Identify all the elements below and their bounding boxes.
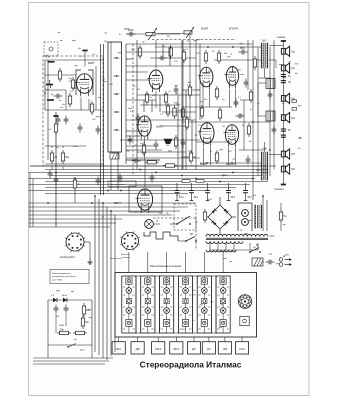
junction dots amp <box>207 46 209 48</box>
switch wafer strip S4 <box>178 276 192 333</box>
transformer Tr2 output channel I <box>261 40 268 69</box>
filter capacitor can <box>238 203 252 231</box>
capacitor C7c <box>132 159 141 164</box>
resistor R14 <box>182 49 185 63</box>
svg-text:Тр2: Тр2 <box>262 40 267 43</box>
svg-text:сетевая: сетевая <box>121 257 131 259</box>
svg-text:Д2-4: Д2-4 <box>61 294 67 297</box>
wire ballast to switch <box>178 240 186 242</box>
svg-text:Гр2: Гр2 <box>291 67 296 70</box>
svg-text:II канал: II канал <box>274 187 284 191</box>
resistor R2 <box>61 150 70 164</box>
resistor R2a <box>71 77 74 91</box>
resistor R11 <box>174 135 177 149</box>
svg-text:РА: РА <box>207 347 211 351</box>
capacitor C7 <box>128 136 133 145</box>
bus capacitor Cb2 <box>118 174 123 183</box>
switch aux box circle <box>243 319 247 323</box>
svg-text:Гр3: Гр3 <box>291 98 296 101</box>
potentiometer R6b <box>184 27 194 38</box>
bus capacitor Cb1 <box>150 174 155 183</box>
tube socket pad XS1 DP-2 <box>65 232 85 252</box>
svg-text:Гр5: Гр5 <box>291 153 296 156</box>
switch B2 <box>185 233 197 242</box>
dashed shield box input stage <box>43 56 103 166</box>
switch separator column 1 <box>136 276 141 333</box>
resistor R11c <box>181 106 184 120</box>
resistor R31 <box>249 89 252 103</box>
terminal bar bottom <box>281 184 286 186</box>
wire PSU verticals <box>262 196 264 231</box>
wire speaker chain <box>282 42 284 184</box>
resistor R11b <box>173 105 176 119</box>
wire amp horizontals <box>183 43 253 45</box>
switch separator column 5 <box>211 276 216 333</box>
capacitor C1 <box>48 170 53 179</box>
bus resistor Ra <box>182 180 190 183</box>
resistor R22 <box>189 150 192 164</box>
svg-text:I канал: I канал <box>277 35 286 39</box>
coil L1 <box>44 80 51 95</box>
antenna terminal Gn3 <box>47 99 54 101</box>
resistor R21 <box>253 56 256 70</box>
band boxes row <box>112 342 125 354</box>
capacitor C18 <box>54 305 59 314</box>
svg-text:0,1: 0,1 <box>160 114 163 116</box>
ground bar above V1 <box>82 50 87 52</box>
junction dots on buses <box>55 172 57 174</box>
svg-text:Колодка ДП-2: Колодка ДП-2 <box>60 256 75 259</box>
vacuum tube V4 6E1P <box>135 189 152 213</box>
tube socket pad XS2 <box>120 231 139 250</box>
svg-text:1м: 1м <box>54 156 57 159</box>
capacitor C17 <box>266 260 275 265</box>
vacuum tube V5 6N2P <box>198 67 213 90</box>
wire IF can outlet drops <box>110 159 112 190</box>
wire subcircuit top <box>48 299 92 301</box>
capacitor C21 <box>272 126 277 135</box>
diode D2 <box>61 294 67 302</box>
capacitor C11 <box>234 99 239 108</box>
capacitor C2a <box>64 116 69 125</box>
svg-text:6Н2П: 6Н2П <box>201 27 209 31</box>
antenna terminal Gn1 <box>45 55 55 63</box>
svg-text:30,0: 30,0 <box>194 197 199 199</box>
wire V1 pins to bus <box>80 99 82 110</box>
capacitor C5 <box>136 114 141 123</box>
ballast winding <box>144 232 178 241</box>
IF transformer can <box>108 42 122 152</box>
resistor R28 <box>73 331 87 334</box>
wire transformer taps <box>264 68 266 78</box>
capacitor C0 <box>54 176 59 185</box>
resistor R11d <box>145 161 159 164</box>
heater winding row <box>206 250 236 252</box>
vacuum tube V1 6K4P <box>75 74 93 97</box>
switch aux box <box>240 316 249 325</box>
switch wafer strip S2 <box>141 276 155 333</box>
svg-text:6К4П: 6К4П <box>88 61 94 65</box>
resistor R3 <box>73 177 80 191</box>
electrolytic capacitor bank <box>175 183 180 201</box>
wire crossover 1 <box>258 82 266 84</box>
mains voltage selector dashed box <box>174 204 196 230</box>
svg-text:Тр1: Тр1 <box>270 235 275 238</box>
capacitor C22 <box>246 156 251 165</box>
selector switch lever <box>170 216 191 225</box>
capacitor C2b <box>78 124 83 133</box>
svg-text:КВ-2: КВ-2 <box>173 347 179 351</box>
wire transformer taps down <box>209 243 211 250</box>
capacitor C10 <box>244 79 249 88</box>
resistor R23 <box>215 150 218 164</box>
switch separator column 2 <box>155 276 160 333</box>
capacitor C6a <box>158 56 167 61</box>
chain capacitor C14 <box>281 81 292 84</box>
resistor R25 <box>82 303 90 317</box>
chain capacitor C16 <box>281 135 286 137</box>
svg-text:6И1П: 6И1П <box>126 57 133 61</box>
wire V2 nets <box>155 40 157 68</box>
svg-text:Др-1: Др-1 <box>221 174 228 177</box>
svg-text:ПВ: ПВ <box>223 347 227 351</box>
bus capacitor Cb3 <box>96 177 101 186</box>
antenna terminal Gn2 <box>45 84 53 91</box>
wire left feeder column <box>55 112 57 227</box>
resistor R10 <box>166 103 169 117</box>
capacitor C8 <box>239 47 248 54</box>
dashed link to switch <box>153 217 196 219</box>
resistor R26 <box>81 315 89 329</box>
switch unit top stubs <box>128 252 130 273</box>
switch wafer strip S1 <box>122 276 136 333</box>
svg-text:устройство для белья: устройство для белья <box>51 275 76 278</box>
crossover choke L3 <box>266 111 275 121</box>
svg-text:Гр1: Гр1 <box>291 51 296 54</box>
resistor R27 <box>57 328 71 334</box>
dashed screen vertical mid <box>132 44 134 176</box>
label radio chassis box <box>108 181 136 187</box>
diode D1 <box>51 295 57 302</box>
speaker Gr1 <box>281 46 295 56</box>
svg-text:2700: 2700 <box>123 29 130 31</box>
svg-text:10,0: 10,0 <box>179 197 184 199</box>
capacitor C12 <box>181 139 186 148</box>
capacitor C2c <box>54 94 63 99</box>
wire bus: bottom return rails <box>33 357 113 359</box>
vacuum tube V3 <box>136 116 151 139</box>
capacitor C4 2700 <box>127 29 136 36</box>
resistor R20 <box>247 123 250 137</box>
switch wafer strip S5 <box>197 276 211 333</box>
resistor R16 <box>215 86 218 100</box>
vacuum tube V2 6I1P <box>147 70 163 92</box>
svg-text:тельность: тельность <box>110 258 121 260</box>
wire socket XS1 stub <box>84 241 90 243</box>
svg-text:СВ-1: СВ-1 <box>155 347 162 351</box>
svg-text:Радиоприемник: Радиоприемник <box>110 183 126 186</box>
resistor R11e <box>163 164 177 167</box>
resistor R29 <box>292 100 297 103</box>
svg-text:0,01: 0,01 <box>240 47 244 49</box>
capacitor C19 <box>64 305 69 314</box>
vacuum tube V8 6P14P <box>223 125 238 148</box>
capacitor C9 <box>236 114 245 119</box>
motor Zv hatched box <box>252 258 263 266</box>
potentiometer R6 <box>146 28 157 40</box>
terminal bar top <box>281 40 286 42</box>
resistor R4 <box>68 93 71 107</box>
wire anode supply rail top <box>30 165 268 167</box>
wire tube pin drops amp <box>202 90 204 107</box>
speaker Gr3 <box>281 93 295 103</box>
decoupling blob <box>164 139 173 144</box>
wire vertical pair left of IF can <box>100 44 102 195</box>
svg-text:Гр4: Гр4 <box>291 117 296 120</box>
chain capacitor C15 <box>281 129 291 132</box>
ground G1 <box>88 258 93 264</box>
wire subcircuit frame <box>48 344 92 346</box>
wire crossover 2 <box>258 115 266 117</box>
component value annotations <box>48 34 257 260</box>
svg-text:5,1: 5,1 <box>238 97 241 99</box>
capacitor C2 <box>56 116 61 125</box>
resistor R15 <box>188 84 191 98</box>
capacitor C3 <box>96 126 101 135</box>
dashed screen line top <box>152 39 236 41</box>
svg-text:Помехозащитное: Помехозащитное <box>52 273 71 275</box>
resistor R24 <box>203 209 206 223</box>
noise suppressor note frame <box>50 270 89 284</box>
svg-text:6П14П: 6П14П <box>226 162 236 166</box>
switch B3 <box>67 344 76 348</box>
dashed aux box top-left <box>44 42 58 56</box>
svg-text:Вход: Вход <box>80 349 86 352</box>
svg-text:(для УКВ): (для УКВ) <box>52 278 62 281</box>
svg-text:УНЧ: УНЧ <box>239 347 245 351</box>
PSU vertical winding <box>255 205 262 228</box>
small value-label marks <box>51 32 302 340</box>
resistor R9 <box>164 91 167 105</box>
resistor R18 <box>218 107 221 121</box>
vacuum tube V7 6N2P <box>198 123 214 147</box>
switch rotor disc <box>238 295 252 309</box>
wire input extras <box>47 60 49 160</box>
rectifier bridge D1-D4 <box>204 197 236 234</box>
svg-text:Гр6: Гр6 <box>291 168 296 171</box>
resistor R17 <box>200 105 203 119</box>
wire V4 drop <box>144 160 146 187</box>
svg-text:20,0: 20,0 <box>175 195 181 197</box>
speaker Gr5 <box>281 149 295 159</box>
resistor R12 <box>204 50 207 64</box>
terminal bar left <box>53 115 58 117</box>
IF can internal taps <box>114 57 120 59</box>
wire left border stubs <box>29 172 31 174</box>
pilot lamp L <box>145 220 160 229</box>
crossover choke L2 <box>266 79 275 89</box>
switch unit outer box <box>115 273 257 338</box>
svg-text:1000: 1000 <box>59 325 65 327</box>
bus resistor Rb <box>196 180 204 183</box>
resistor R10a <box>169 45 172 59</box>
svg-text:Стереорадиола Италмас: Стереорадиола Италмас <box>140 360 242 370</box>
capacitor C20 <box>268 91 273 100</box>
power transformer Tr1 windings <box>206 234 275 243</box>
svg-text:Тр3: Тр3 <box>262 149 267 152</box>
mains plug Sh <box>279 255 292 266</box>
mains switch B <box>249 244 261 253</box>
wire subcircuit to bus <box>47 345 49 358</box>
transformer Tr3 output channel II <box>261 149 267 181</box>
switch wafer strip S3 <box>160 276 174 333</box>
resistor R11a <box>142 142 145 156</box>
wire bus: left vertical feeder group <box>94 196 96 352</box>
svg-text:6Е1П: 6Е1П <box>114 201 121 205</box>
wire speaker feed II <box>269 154 281 156</box>
resistor R7 <box>138 45 141 59</box>
indicator tube frame <box>129 186 162 212</box>
switch separator column 4 <box>193 276 198 333</box>
wire bus: supply rails <box>45 169 268 171</box>
resistor R19 <box>185 116 188 130</box>
capacitor C7a <box>154 141 159 150</box>
svg-text:Тр3: Тр3 <box>256 169 261 172</box>
hatched connector under IF can <box>110 153 119 159</box>
speaker Gr6 <box>281 164 295 174</box>
svg-text:50,0: 50,0 <box>231 197 236 199</box>
svg-text:Л: Л <box>155 220 158 223</box>
resistor R0 <box>54 121 57 135</box>
svg-text:Вкл: Вкл <box>116 347 121 351</box>
wire input net <box>45 109 103 111</box>
wire V3 nets <box>144 137 146 160</box>
svg-text:Пф: Пф <box>104 40 108 43</box>
wire bus: lower distribution rails <box>30 202 196 204</box>
resistor R13 <box>217 50 220 64</box>
svg-text:Расположение контуров: Расположение контуров <box>150 264 182 268</box>
vacuum tube V6 6P14P <box>224 67 238 89</box>
wire radio net grid <box>126 43 183 45</box>
svg-text:ДВ: ДВ <box>135 347 140 351</box>
speaker Gr4 <box>281 113 295 123</box>
svg-text:6П14П: 6П14П <box>229 27 239 31</box>
chain capacitor C13 <box>281 75 291 79</box>
wire top link <box>157 33 184 35</box>
resistor R2b <box>58 68 61 82</box>
resistor R1 <box>50 150 57 164</box>
wire amp vertical feeds <box>182 40 184 170</box>
wire speaker feeds <box>269 45 283 47</box>
wire radio vertical drops <box>136 40 138 170</box>
svg-text:50,0: 50,0 <box>248 197 253 199</box>
fuse resistor Pn <box>279 209 287 223</box>
switch wafer strip S6 <box>216 276 230 333</box>
resistor R30 <box>292 108 297 111</box>
svg-text:6И2П: 6И2П <box>156 125 163 129</box>
speaker Gr2 <box>281 63 295 73</box>
resistor R5 <box>90 101 93 115</box>
capacitor C6 <box>174 86 179 95</box>
switch separator column 3 <box>174 276 179 333</box>
resistor R8 <box>145 91 148 105</box>
switch unit bottom stubs <box>118 337 120 342</box>
tube V1 shield <box>76 70 81 95</box>
